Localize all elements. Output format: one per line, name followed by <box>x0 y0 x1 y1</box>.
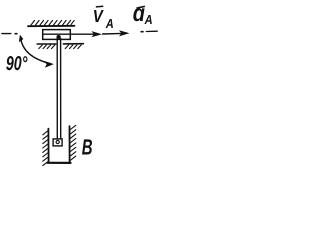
svg-text:90°: 90° <box>6 53 28 75</box>
svg-text:A: A <box>144 12 153 27</box>
svg-text:V: V <box>93 6 104 26</box>
svg-text:ɑ: ɑ <box>133 0 145 27</box>
svg-text:B: B <box>82 134 93 159</box>
svg-text:A: A <box>105 16 114 31</box>
